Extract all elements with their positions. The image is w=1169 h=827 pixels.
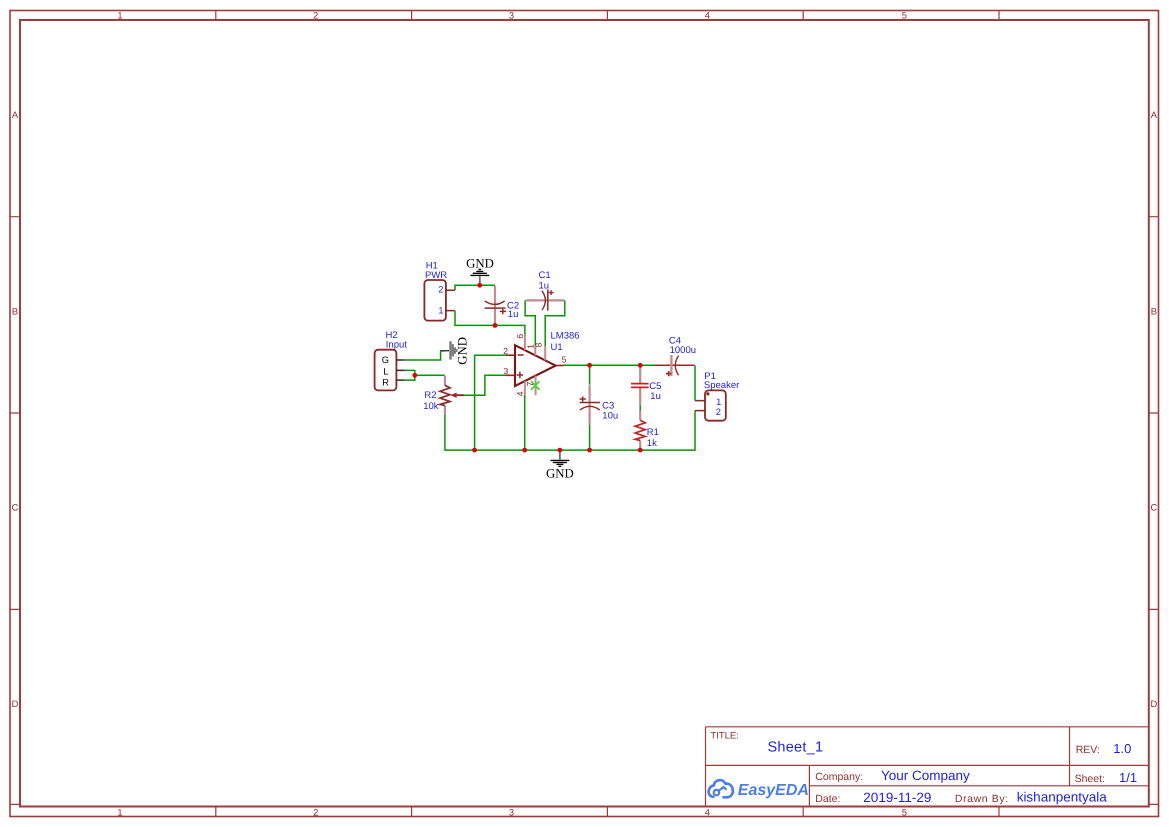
svg-text:1000u: 1000u [670,345,696,356]
svg-text:Your Company: Your Company [881,768,970,783]
svg-text:GND: GND [456,337,470,365]
svg-text:R: R [382,378,389,388]
svg-text:1: 1 [716,397,721,407]
svg-text:U1: U1 [551,342,563,353]
svg-text:Sheet_1: Sheet_1 [768,740,824,756]
svg-text:GND: GND [546,467,574,481]
svg-text:C: C [1150,503,1157,513]
svg-text:C: C [12,503,19,513]
svg-text:1: 1 [117,807,122,817]
svg-text:5: 5 [902,11,907,21]
svg-text:7: 7 [525,382,535,387]
svg-text:PWR: PWR [425,270,447,281]
svg-text:2019-11-29: 2019-11-29 [863,790,931,805]
svg-text:G: G [382,355,389,365]
svg-text:2: 2 [438,285,443,295]
svg-text:1: 1 [117,11,122,21]
svg-text:1u: 1u [508,309,519,320]
svg-text:3: 3 [509,11,514,21]
svg-text:kishanpentyala: kishanpentyala [1017,790,1108,805]
svg-text:6: 6 [515,334,525,339]
svg-text:Speaker: Speaker [704,380,739,391]
svg-text:Sheet:: Sheet: [1075,773,1105,785]
svg-text:4: 4 [705,807,710,817]
svg-text:Company:: Company: [815,771,863,783]
svg-text:B: B [1151,306,1157,316]
svg-text:10u: 10u [602,410,618,421]
svg-text:1u: 1u [650,391,661,402]
svg-text:1: 1 [438,305,443,315]
svg-text:4: 4 [515,391,525,396]
svg-text:10k: 10k [423,401,439,412]
svg-text:B: B [12,306,18,316]
svg-text:D: D [12,699,19,709]
svg-text:1/1: 1/1 [1119,770,1137,785]
svg-text:1k: 1k [647,438,657,449]
svg-text:R1: R1 [647,427,659,438]
svg-text:3: 3 [503,366,508,376]
svg-text:8: 8 [534,343,544,348]
svg-text:Drawn By:: Drawn By: [955,793,1009,805]
svg-text:1.0: 1.0 [1113,741,1131,756]
svg-text:GND: GND [466,257,494,271]
svg-text:A: A [1151,110,1158,120]
svg-text:5: 5 [902,807,907,817]
svg-text:L: L [383,366,388,376]
svg-text:5: 5 [562,354,567,364]
svg-text:A: A [12,110,19,120]
svg-text:3: 3 [509,807,514,817]
svg-text:REV:: REV: [1076,744,1100,756]
svg-text:EasyEDA: EasyEDA [738,782,809,799]
svg-text:2: 2 [313,807,318,817]
svg-text:Input: Input [386,340,407,351]
svg-text:TITLE:: TITLE: [710,731,739,742]
svg-text:LM386: LM386 [551,330,580,341]
svg-text:R2: R2 [424,390,436,401]
svg-text:2: 2 [313,11,318,21]
svg-text:1u: 1u [539,280,550,291]
svg-text:2: 2 [503,346,508,356]
svg-text:4: 4 [705,11,710,21]
svg-text:2: 2 [716,407,721,417]
svg-text:D: D [1150,699,1157,709]
svg-text:Date:: Date: [815,793,840,805]
